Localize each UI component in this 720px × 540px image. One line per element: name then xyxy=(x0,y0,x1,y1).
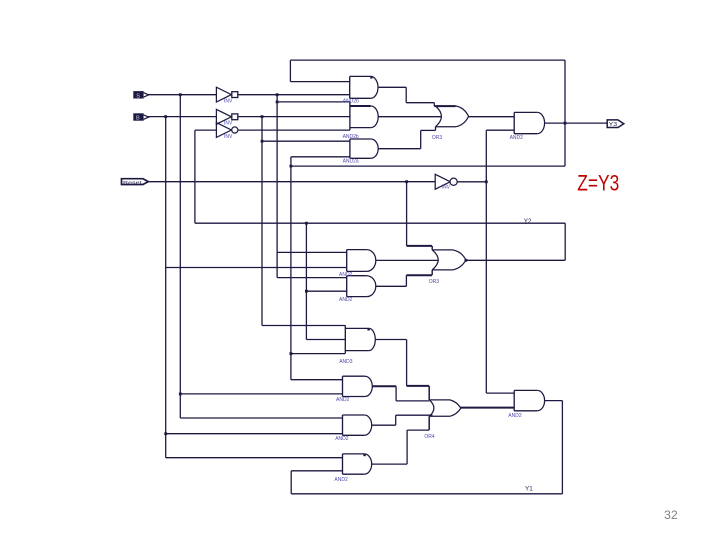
svg-text:INV: INV xyxy=(442,185,451,191)
svg-text:AND3: AND3 xyxy=(339,359,353,365)
svg-text:INV: INV xyxy=(224,121,233,127)
svg-text:OR4: OR4 xyxy=(424,434,435,440)
svg-text:B: B xyxy=(136,116,140,122)
svg-text:OR3: OR3 xyxy=(429,279,440,285)
svg-text:AND2: AND2 xyxy=(336,397,350,403)
svg-text:AND2b: AND2b xyxy=(343,98,359,104)
svg-text:Z=Y3: Z=Y3 xyxy=(577,170,619,195)
svg-text:AND2b: AND2b xyxy=(343,134,359,140)
svg-text:AND2: AND2 xyxy=(339,272,353,278)
svg-text:AND2a: AND2a xyxy=(343,159,359,165)
svg-text:INV: INV xyxy=(224,98,233,104)
svg-text:AND2: AND2 xyxy=(508,413,522,419)
svg-text:AND2: AND2 xyxy=(334,477,348,483)
svg-text:Y3: Y3 xyxy=(609,122,618,128)
svg-text:OR3: OR3 xyxy=(432,135,443,141)
svg-text:Reset: Reset xyxy=(123,180,143,185)
svg-text:S: S xyxy=(136,93,140,99)
svg-text:Y1: Y1 xyxy=(525,485,533,492)
svg-text:AND2: AND2 xyxy=(510,135,524,141)
svg-text:AND2: AND2 xyxy=(335,436,349,442)
svg-text:32: 32 xyxy=(664,508,678,522)
svg-text:Y2: Y2 xyxy=(524,218,532,225)
svg-text:INV: INV xyxy=(224,134,233,140)
svg-text:AND2: AND2 xyxy=(339,297,353,303)
